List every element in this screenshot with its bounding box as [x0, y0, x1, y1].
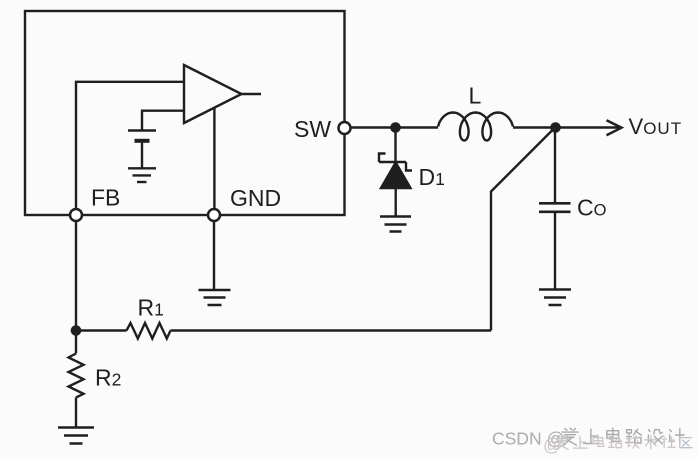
ground (reference): [128, 168, 156, 182]
svg-text:VOUT: VOUT: [629, 114, 683, 139]
svg-text:GND: GND: [230, 185, 281, 211]
wire feedback diagonal from output node: [491, 128, 555, 331]
wire op-amp output stub: [240, 93, 261, 95]
pin GND: [208, 209, 220, 221]
op-amp error amplifier: [184, 65, 242, 123]
svg-text:L: L: [469, 83, 482, 109]
ground (diode D1): [380, 217, 411, 232]
wire op-amp to GND pin: [213, 108, 215, 216]
wire divider node to R1: [76, 329, 127, 331]
ground (Co): [539, 290, 571, 306]
ground (R2): [58, 428, 94, 444]
pin FB: [70, 209, 82, 221]
svg-text:R2: R2: [95, 365, 121, 391]
watermark overlay hanzi strokes: [556, 435, 692, 449]
junction dot divider node: [71, 325, 82, 336]
junction dot output node: [550, 122, 561, 133]
wire output node to Co: [554, 128, 556, 204]
inductor L: [438, 113, 513, 141]
wire inductor to output node: [513, 126, 556, 128]
IC body box: [25, 11, 345, 215]
wire reference to op-amp inverting input: [142, 111, 184, 130]
wire output node to VOUT arrow: [556, 126, 619, 128]
svg-text:CO: CO: [577, 195, 607, 221]
arrowhead VOUT: [607, 120, 622, 135]
wire R1 to feedback vertical: [171, 329, 492, 331]
wire diode to ground: [395, 188, 397, 217]
svg-text:@: @: [543, 435, 561, 455]
svg-text:FB: FB: [91, 185, 120, 211]
voltage reference battery: [128, 131, 156, 169]
wire FB to op-amp non-inverting input: [76, 82, 184, 215]
svg-text:SW: SW: [294, 116, 331, 142]
wire FB pin down to divider node: [75, 215, 77, 354]
wire R2 to ground: [75, 398, 77, 428]
junction dot SW-D1 node: [390, 122, 401, 133]
svg-text:D1: D1: [419, 164, 445, 190]
pin SW: [339, 122, 351, 134]
ground (GND pin): [199, 290, 231, 305]
diode D1 schottky cathode bar: [379, 154, 412, 171]
diode D1 anode triangle: [381, 163, 411, 189]
resistor R2: [69, 354, 84, 398]
capacitor Co plates: [539, 203, 571, 212]
svg-text:R1: R1: [138, 295, 164, 321]
wire Co to ground: [554, 212, 556, 290]
resistor R1: [127, 323, 171, 339]
wire GND pin to ground: [213, 215, 215, 290]
watermark main hanzi strokes: [562, 428, 684, 445]
wire SW node to diode D1: [394, 128, 396, 163]
wire SW to inductor: [350, 126, 438, 128]
